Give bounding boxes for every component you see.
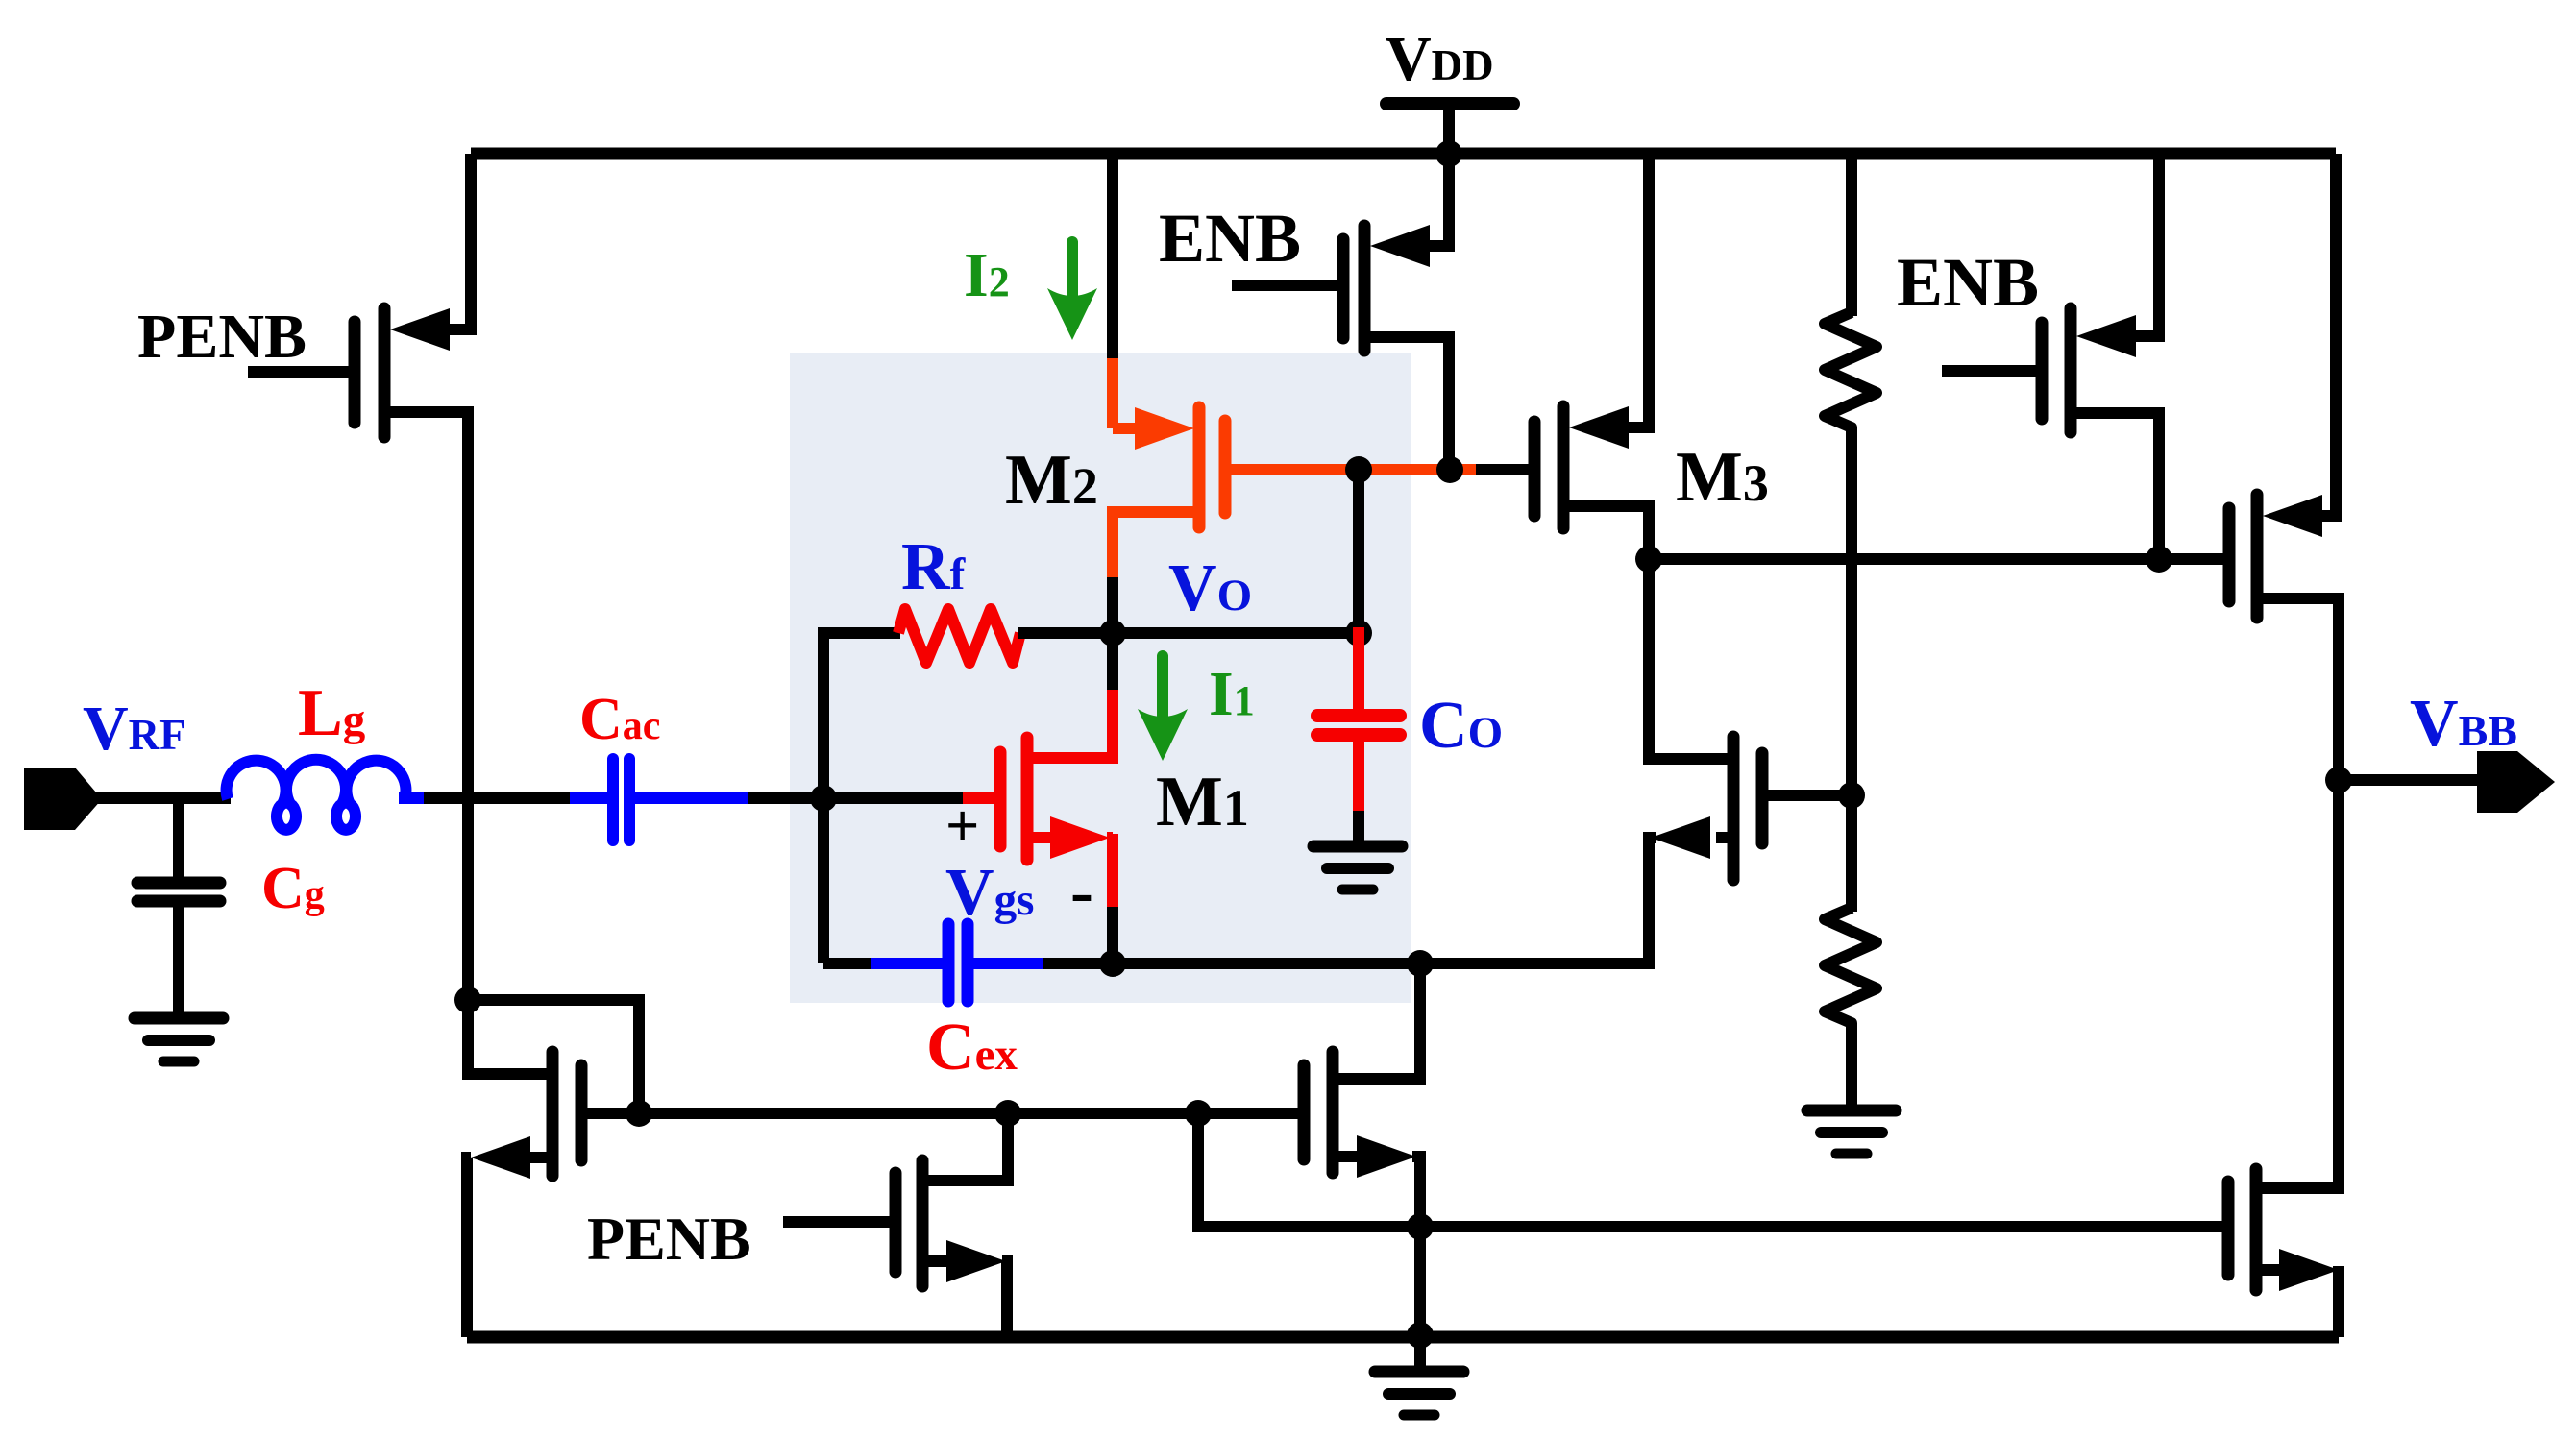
transistor E1 gate bar bbox=[1337, 239, 1350, 338]
transistor M3 source arrow bbox=[1569, 406, 1629, 449]
wire Vo node to Co bbox=[1113, 627, 1359, 639]
wire R1 to Q4 gate node bbox=[1846, 433, 1857, 912]
wire QB4 source to ground rail bbox=[2333, 1266, 2344, 1337]
transistor M3 gate bar bbox=[1529, 422, 1541, 516]
wire gate bus to QB4 gate line bbox=[1198, 1113, 1426, 1227]
transistor M1 source stub bbox=[1033, 832, 1052, 843]
transistor M1 source wire red part bbox=[1107, 832, 1113, 843]
junction VBB node bbox=[2325, 767, 2352, 793]
transistor QB4 source stub bbox=[2262, 1264, 2281, 1276]
transistor M1 gate wire black part bbox=[823, 792, 965, 804]
junction M3 drain node bbox=[1635, 546, 1662, 573]
transistor M1 drain wire bbox=[1033, 686, 1113, 758]
wire gate node up to Rf bbox=[818, 633, 829, 804]
capacitor Cex right lead bbox=[972, 958, 1046, 969]
transistor E2 gate wire (ENB) bbox=[1942, 365, 2036, 377]
transistor E1 source arrow bbox=[1370, 225, 1430, 267]
transistor QB3 source stub bbox=[1338, 1151, 1359, 1162]
transistor QB3 gate bar bbox=[1298, 1065, 1311, 1159]
resistor R1 (ENB pull) bbox=[1825, 312, 1877, 437]
transistor M2 drain wire bbox=[1113, 512, 1194, 581]
wire E1 source to VDD rail bbox=[1430, 154, 1449, 246]
VDD power rail (top) bbox=[471, 148, 2336, 160]
junction QB1 gate bus bbox=[626, 1100, 652, 1127]
wire to M3 gate bbox=[1476, 464, 1532, 475]
capacitor Cex bbox=[943, 924, 955, 1001]
wire Co to ground bbox=[1353, 811, 1364, 844]
transistor E2 gate bar bbox=[2036, 323, 2049, 419]
wire to Cex (black) bbox=[823, 958, 875, 969]
capacitor Co top lead bbox=[1353, 627, 1364, 712]
wire Cex to M1 source node bbox=[1043, 958, 1113, 969]
gate bus wire bbox=[639, 1108, 1299, 1119]
transistor QB2 gate wire (PENB) bbox=[783, 1216, 890, 1228]
junction VDD-rail bbox=[1435, 140, 1462, 167]
transistor Q1 channel bar bbox=[379, 308, 391, 437]
transistor M2 source arrow bbox=[1135, 407, 1194, 450]
transistor Q5 source arrow bbox=[2263, 495, 2322, 537]
transistor QB2 gate bar bbox=[890, 1173, 902, 1272]
transistor QB3 source arrow bbox=[1357, 1135, 1416, 1178]
wire QB1 source to ground rail bbox=[467, 1158, 471, 1337]
wire QB2 drain to gate bus bbox=[928, 1113, 1008, 1181]
wire M2 drain to Vo node bbox=[1107, 577, 1118, 633]
wire Q5 source to VDD rail bbox=[2318, 154, 2336, 516]
transistor M1 gate wire red part bbox=[963, 792, 995, 804]
ground (Cg) bbox=[135, 1012, 223, 1025]
junction Vo/Co bbox=[1345, 620, 1372, 646]
wire port to inductor bbox=[94, 792, 231, 804]
transistor QB4 gate bar bbox=[2222, 1182, 2235, 1275]
transistor QB1 gate bar bbox=[576, 1065, 588, 1160]
wire E2 source to VDD rail bbox=[2136, 154, 2159, 336]
wire M3 drain down to Q4 drain bbox=[1649, 559, 1728, 759]
wire QB4 drain stub bbox=[2262, 1182, 2339, 1194]
transistor E1 gate wire (ENB) bbox=[1232, 280, 1337, 291]
wire Q1 source to VDD rail bbox=[450, 154, 471, 329]
capacitor Cg bbox=[137, 877, 220, 890]
transistor E2 channel bar bbox=[2065, 308, 2077, 432]
svg-text:+: + bbox=[945, 793, 979, 859]
junction M2 gate / Vo column bbox=[1345, 456, 1372, 483]
transistor E1 channel bar bbox=[1359, 226, 1371, 351]
transistor QB2 source arrow bbox=[946, 1240, 1006, 1282]
junction input/gate node bbox=[810, 785, 837, 812]
capacitor Cac bbox=[607, 759, 619, 841]
transistor QB4 source arrow bbox=[2279, 1249, 2339, 1291]
svg-text:PENB: PENB bbox=[587, 1205, 751, 1273]
resistor R2 bbox=[1825, 908, 1877, 1033]
wire QB2 source to ground rail bbox=[1002, 1261, 1007, 1337]
junction QB3 drain node bbox=[1407, 950, 1434, 977]
transistor M3 channel bar bbox=[1558, 406, 1570, 528]
transistor Q5 channel bar bbox=[2251, 495, 2264, 618]
transistor QB1 source stub bbox=[530, 1152, 547, 1163]
wire inductor to Cac (black part) bbox=[424, 792, 574, 804]
svg-text:PENB: PENB bbox=[137, 302, 307, 372]
current arrow I2 bbox=[1067, 242, 1078, 298]
junction QB2 drain / gate bus bbox=[994, 1100, 1021, 1127]
transistor Q4 channel bar bbox=[1728, 737, 1740, 880]
wire QB1 drain stub bbox=[468, 1000, 547, 1074]
wire M1 drain to Vo node bbox=[1107, 633, 1118, 690]
transistor QB1 channel bar bbox=[547, 1052, 559, 1176]
ground rail (bottom) bbox=[467, 1331, 2339, 1344]
junction QB4 gate line bbox=[1407, 1213, 1434, 1240]
output port VBB bbox=[2477, 751, 2555, 813]
transistor QB3 channel bar bbox=[1327, 1052, 1339, 1173]
wire to Q5 gate bbox=[2159, 553, 2225, 565]
wire E1 drain to M2 gate line bbox=[1370, 337, 1449, 470]
transistor Q4 gate bar bbox=[1756, 753, 1769, 843]
transistor QB1 gate wire bbox=[587, 1108, 645, 1119]
transistor QB1 source arrow bbox=[471, 1136, 530, 1179]
wire QB3 source to ground rail bbox=[1412, 1157, 1420, 1337]
junction Q1 drain / QB1 bbox=[454, 987, 481, 1013]
capacitor Co bottom lead bbox=[1353, 735, 1364, 815]
transistor Q5 gate bar bbox=[2223, 508, 2236, 601]
transistor Q4 source stub bbox=[1716, 832, 1728, 843]
highlighted core amplifier region bbox=[790, 353, 1411, 1003]
transistor M1 source arrow bbox=[1050, 816, 1110, 859]
transistor E2 source arrow bbox=[2076, 315, 2136, 357]
transistor QB4 channel bar bbox=[2250, 1169, 2263, 1290]
junction E2 drain / Q5 gate bbox=[2146, 546, 2172, 573]
wire Cac to gate node bbox=[748, 792, 829, 804]
wire VBB output bbox=[2339, 774, 2481, 786]
inductor Lg bbox=[227, 760, 406, 830]
wire E2 drain down bbox=[2076, 413, 2159, 565]
transistor Q4 gate wire bbox=[1768, 790, 1852, 801]
resistor Rf right lead bbox=[1018, 627, 1118, 639]
capacitor Cac right lead bbox=[634, 792, 751, 804]
junction Vo node bbox=[1099, 620, 1126, 646]
wire Q1 drain down-column bbox=[390, 412, 468, 1000]
wire M3 drain down bbox=[1569, 506, 1649, 565]
wire ground stub bbox=[1414, 1337, 1426, 1370]
capacitor Co bbox=[1317, 709, 1400, 722]
wire QB1 to gate bus bbox=[468, 1000, 639, 1113]
ground (bottom rail) bbox=[1375, 1366, 1463, 1378]
wire Q4 source down-left bbox=[1420, 838, 1656, 963]
current arrow I1 bbox=[1157, 656, 1168, 719]
ground (R2) bbox=[1807, 1105, 1896, 1117]
transistor M1 gate bar bbox=[994, 752, 1007, 846]
resistor Rf left lead bbox=[818, 627, 900, 639]
wire M3 source to VDD rail bbox=[1629, 154, 1649, 427]
transistor M2 gate bar bbox=[1219, 421, 1232, 513]
transistor Q4 source arrow bbox=[1651, 816, 1710, 859]
transistor Q1 gate wire (PENB) bbox=[248, 366, 349, 378]
wire M1 source to Vgs node bbox=[1107, 907, 1118, 963]
svg-text:-: - bbox=[1070, 853, 1093, 930]
transistor M2 gate wire (to M3) bbox=[1231, 464, 1480, 475]
transistor M1 channel bar bbox=[1021, 738, 1034, 860]
wire R2 to ground bbox=[1846, 1029, 1857, 1110]
QB4 gate wire bbox=[1420, 1221, 2222, 1232]
capacitor Cex left lead bbox=[871, 958, 944, 969]
svg-text:ENB: ENB bbox=[1897, 244, 2039, 321]
wire source node to QB3 column bbox=[1113, 958, 1420, 969]
wire VDD rail to M2 (I2 branch) bbox=[1107, 154, 1118, 362]
junction QB3 source / ground rail bbox=[1407, 1322, 1434, 1349]
transistor M2 source wire bbox=[1107, 358, 1118, 428]
wire inductor to Cac (blue part) bbox=[399, 792, 428, 804]
input port VRF bbox=[24, 768, 102, 830]
wire Q5 drain to VBB column bbox=[2263, 598, 2339, 1194]
wire gate node down bbox=[818, 792, 829, 963]
wire QB3 drain stub bbox=[1338, 963, 1420, 1079]
transistor Q1 (PENB PMOS) gate bar bbox=[349, 322, 361, 423]
transistor QB2 channel bar bbox=[917, 1160, 929, 1286]
junction M1 source node bbox=[1099, 950, 1126, 977]
resistor Rf bbox=[898, 609, 1020, 663]
capacitor Cg lead bbox=[173, 798, 184, 878]
wire M3 drain to E2 drain bbox=[1649, 553, 2159, 565]
VDD supply symbol bbox=[1386, 97, 1513, 110]
junction E1 drain / M3 gate bbox=[1436, 456, 1463, 483]
junction QB3 gate bbox=[1185, 1100, 1212, 1127]
svg-text:ENB: ENB bbox=[1159, 200, 1301, 277]
ground (Co) bbox=[1313, 841, 1402, 853]
wire Vo up to M2 gate line bbox=[1353, 470, 1364, 633]
transistor QB3 gate wire bbox=[1198, 1108, 1298, 1119]
wire Cg to ground bbox=[173, 901, 184, 1016]
transistor Q1 source arrow bbox=[390, 308, 450, 351]
wire VDD rail to R1 bbox=[1846, 154, 1857, 316]
capacitor Cac left lead bbox=[570, 792, 608, 804]
transistor M2 channel bar bbox=[1193, 407, 1206, 527]
transistor QB2 source stub bbox=[928, 1255, 948, 1267]
junction Q4 gate node bbox=[1838, 782, 1865, 809]
